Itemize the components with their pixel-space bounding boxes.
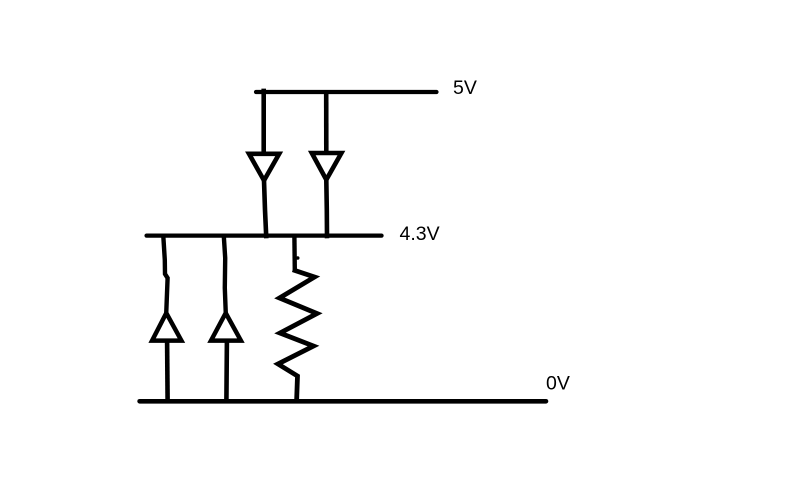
diode D2 (down-pointing triangle)	[312, 153, 342, 180]
wire 4.3V rail to diode D3 cathode (wobbly)	[163, 236, 167, 312]
wire diode D1 anode stub	[261, 89, 266, 153]
wire diode D1 cathode to 4.3V rail	[264, 181, 266, 237]
svg-text:0V: 0V	[546, 372, 570, 394]
wire 4.3V rail to diode D4 cathode (wobbly)	[224, 236, 226, 312]
resistor R1 (zigzag)	[278, 271, 317, 402]
wire diode D3 anode to 0V rail	[165, 342, 170, 402]
svg-text:5V: 5V	[453, 77, 477, 99]
wire 4.3V rail to resistor R1 top	[292, 237, 297, 271]
diode D1 (down-pointing triangle)	[249, 154, 279, 181]
diode D3 (up-pointing triangle)	[152, 313, 181, 341]
svg-text:4.3V: 4.3V	[400, 223, 440, 245]
wire diode D4 anode to 0V rail	[224, 342, 229, 402]
wire 5V rail	[256, 90, 437, 94]
wire diode D2 cathode to 4.3V rail	[324, 180, 329, 236]
diode D4 (up-pointing triangle)	[211, 313, 241, 341]
wire 0V rail	[140, 399, 546, 404]
wire small pen mark on resistor stub	[296, 256, 300, 260]
wire diode D2 anode stub	[324, 92, 329, 152]
wire 4.3V rail	[147, 233, 382, 237]
